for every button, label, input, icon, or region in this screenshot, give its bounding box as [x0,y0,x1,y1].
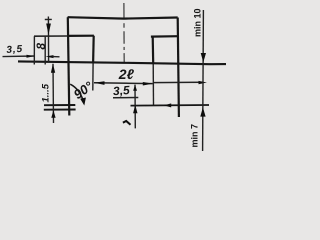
90 degree arc [70,84,84,102]
panel surface base line [18,61,226,64]
dimension 3,5 left: dimension line [3,55,35,58]
dimension 1...5: up arrowhead at panel surface [51,64,55,73]
dimension 1...5: dimension line [52,64,55,123]
svg-text:min 10: min 10 [193,8,203,37]
extension line A (x=34.4) [33,36,35,64]
svg-text:2ℓ: 2ℓ [118,66,135,82]
centre up arrowhead at right panel bottom line [133,105,137,113]
min dimension axis vertical line [202,10,205,151]
panel bottom line 1 (left) [44,104,75,106]
dimension 2L: right arrowhead [143,82,153,86]
dimension 2L: dimension line [94,82,153,85]
90 degree arc arrowhead [80,98,86,106]
profile left slot wall [92,36,95,64]
profile right slot wall [152,37,155,64]
svg-text:min 7: min 7 [189,124,199,148]
label 1 (small stroke) [123,121,131,125]
panel bottom line 2 (left) [44,109,76,111]
dimension 8: vertical dimension line [47,17,49,63]
profile top line [68,17,178,18]
profile left inner step [67,35,94,37]
auxiliary line from slot wall to min axis [153,81,203,83]
dimension 8: top tick [45,18,52,20]
extension line B (x=45.2) [44,36,46,64]
panel bottom line (right) [131,104,210,107]
min 7 up arrowhead [200,107,205,116]
profile right inner step [151,35,178,38]
dimension 8: down arrowhead [46,24,51,35]
right slot wall extension below panel [152,63,154,105]
dimension 3,5 centre: label line under text [113,97,138,99]
profile right leg [178,18,179,118]
svg-text:3,5: 3,5 [6,44,23,56]
centre up arrowhead at 2L line [133,85,137,91]
right-pointing arrowhead on auxiliary line [199,81,207,84]
dimension 3,5 left: left-pointing arrowhead at B with tail [46,55,54,58]
dimension 1...5: up arrowhead at lower line [51,110,55,118]
left step extension line [34,35,68,37]
left slot wall extension below panel [92,63,94,91]
centre vertical dimension line [134,85,136,129]
svg-text:1...5: 1...5 [41,83,52,102]
svg-text:3,5: 3,5 [113,83,131,98]
dimension 2L: left arrowhead [94,81,105,85]
centerline (dash-dot vertical axis) [123,3,125,63]
arrow mark on right panel bottom line [164,103,171,107]
svg-text:8: 8 [34,43,48,50]
dimension 3,5 left: right-pointing arrowhead at A [27,55,35,58]
min 10 down arrowhead [201,53,206,62]
profile left leg [68,17,70,115]
